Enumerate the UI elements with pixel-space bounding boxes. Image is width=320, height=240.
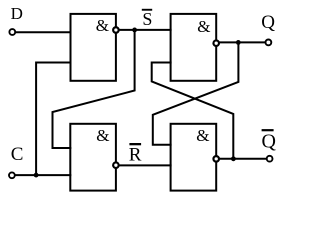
terminal Q [266, 40, 272, 46]
gate U2 (top-right NAND) [171, 14, 217, 81]
svg-text:&: & [197, 17, 210, 36]
terminal D [9, 29, 15, 35]
terminal C [9, 172, 15, 178]
junction node Qbar [231, 156, 236, 161]
inversion bubble U3 output [113, 162, 119, 168]
svg-text:C: C [11, 144, 24, 165]
wire Qbar feedback to U2 lower input [152, 63, 234, 159]
junction node S [132, 28, 137, 33]
gate U3 (bottom-left NAND) [70, 124, 116, 191]
overbar of S [142, 9, 152, 11]
svg-text:Q: Q [262, 130, 277, 152]
wire C input [15, 174, 70, 176]
overbar of R [129, 143, 141, 145]
junction node Q [236, 40, 241, 45]
wire R node: U3 output to U4 lower input [120, 164, 171, 166]
terminal Qbar [267, 156, 273, 162]
inversion bubble U4 output [213, 156, 219, 162]
gate U1 (top-left NAND) [71, 14, 116, 81]
svg-text:&: & [96, 16, 109, 35]
inversion bubble U2 output [213, 40, 219, 46]
inversion bubble U1 output [113, 27, 119, 33]
gate U4 (bottom-right NAND) [171, 124, 217, 191]
wire Q output [220, 41, 266, 43]
wire D input [15, 31, 70, 33]
svg-text:S: S [142, 9, 152, 29]
wire Q feedback to U4 upper input [153, 42, 239, 144]
overbar of Qbar [262, 129, 274, 131]
svg-text:D: D [11, 4, 23, 23]
svg-text:R: R [129, 144, 142, 165]
wire Qbar output [220, 158, 267, 160]
wire S feedback to U3 upper input [53, 30, 135, 148]
svg-text:&: & [196, 126, 209, 145]
svg-text:Q: Q [261, 12, 275, 33]
wire S node: U1 output to U2 input [120, 29, 171, 31]
junction node C [34, 173, 39, 178]
svg-text:&: & [96, 126, 109, 145]
wire C branch to U1 lower input [36, 63, 70, 176]
